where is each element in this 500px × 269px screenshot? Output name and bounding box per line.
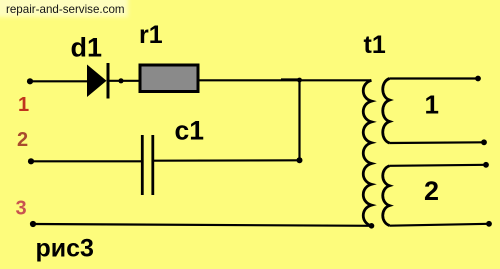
wire resistor to transformer primary [200,79,372,81]
svg-text:c1: c1 [175,116,204,146]
junction dot primary bottom [369,223,375,229]
svg-text:1: 1 [18,94,29,116]
transformer T1 primary winding [363,80,371,226]
wire overtrace before junction [281,78,300,80]
diode D1 [87,63,108,99]
svg-text:2: 2 [17,129,28,151]
wire line3 terminal to transformer [33,224,372,226]
transformer T1 secondary winding 2 [383,166,390,226]
wire capacitor to junction [154,159,300,162]
wire line2 terminal to capacitor [31,160,141,162]
transformer T1 secondary winding 1 [383,79,390,144]
svg-text:repair-and-servise.com: repair-and-servise.com [6,3,125,16]
wire secondary2 top [390,165,487,166]
terminal dot line 3 [30,221,36,227]
svg-text:1: 1 [425,90,439,120]
wire secondary1 top [390,77,479,79]
svg-text:2: 2 [424,176,439,206]
terminal dot secondary1 bottom [481,139,487,145]
terminal dot secondary1 top [475,76,481,82]
svg-text:d1: d1 [71,33,103,63]
terminal dot secondary2 bottom [486,221,492,227]
wire secondary2 bottom [390,224,490,226]
junction dot after diode [118,78,123,83]
svg-text:рис3: рис3 [36,235,94,263]
wire line1 terminal to diode [30,80,88,82]
resistor R1 [140,65,198,92]
svg-text:r1: r1 [139,21,163,49]
junction dot node A (line1 / cap branch) [297,78,302,83]
terminal dot line 1 [27,78,33,84]
capacitor C1 [142,135,153,195]
svg-text:t1: t1 [364,31,386,59]
wire diode to resistor [108,80,140,82]
wire secondary1 bottom [390,141,485,144]
watermark repair-and-servise.com [0,0,128,17]
svg-text:3: 3 [16,198,27,220]
wire vertical cap branch [298,80,300,160]
terminal dot line 2 [28,158,34,164]
terminal dot secondary2 top [483,162,489,168]
junction dot cap branch bottom [297,157,303,163]
